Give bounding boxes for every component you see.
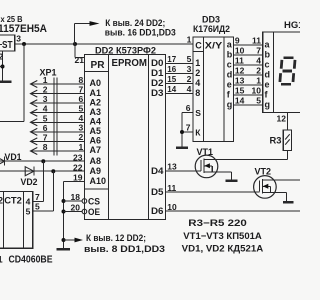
XP1 arrow 7 <box>31 138 38 145</box>
wire XP1 row 4 <box>31 112 85 114</box>
wire D3 to DD3 <box>166 93 193 95</box>
svg-text:VD1, VD2 КД521А: VD1, VD2 КД521А <box>182 244 264 255</box>
wire D2 to DD3 <box>166 83 193 85</box>
connector XP1 bar 2 <box>56 78 58 156</box>
ground bar rail <box>57 248 70 251</box>
node S-K junction <box>180 130 184 134</box>
counter DD1 box <box>0 192 33 249</box>
svg-text:1: 1 <box>43 75 48 85</box>
diode VD1 bar <box>4 157 6 166</box>
svg-text:CS: CS <box>88 197 100 207</box>
svg-text:ST: ST <box>2 40 13 51</box>
svg-text:S: S <box>195 108 201 118</box>
svg-text:1: 1 <box>0 255 3 266</box>
svg-text:b: b <box>227 50 233 60</box>
R3 slash 2 <box>285 139 290 144</box>
VT1 source stub <box>204 171 231 173</box>
wire XP1 row 2 <box>31 93 85 95</box>
svg-text:R3: R3 <box>270 135 282 145</box>
svg-text:a: a <box>265 40 271 50</box>
svg-text:1: 1 <box>256 76 261 86</box>
VT2 source stub <box>263 192 287 194</box>
wire up to supply arrow <box>74 24 76 45</box>
DD3 divider left col <box>202 37 204 142</box>
HG1 digit seg D <box>281 83 291 86</box>
HG1 divider <box>273 32 275 113</box>
regulator DA1 box <box>0 35 15 51</box>
wire A10 row <box>64 180 85 182</box>
R3 slash 1 <box>285 134 290 139</box>
wire segment e <box>233 84 262 86</box>
svg-text:14: 14 <box>235 96 245 106</box>
svg-text:13: 13 <box>235 76 245 86</box>
node A9 junction <box>51 169 55 173</box>
svg-text:4: 4 <box>43 104 48 114</box>
svg-text:11: 11 <box>235 56 244 66</box>
XP1 arrow 6 <box>31 128 38 135</box>
svg-text:D4: D4 <box>151 166 164 177</box>
DD3 divider right col <box>223 37 225 142</box>
svg-text:17: 17 <box>167 55 176 64</box>
svg-text:5: 5 <box>187 54 192 64</box>
XP1 arrow 2 <box>31 90 38 97</box>
svg-text:7: 7 <box>256 46 261 56</box>
svg-text:PR: PR <box>91 60 106 71</box>
ground bar VT1 <box>226 179 238 182</box>
wire S row <box>182 112 193 114</box>
wire XP1 row 5 <box>31 121 85 123</box>
wire segment b <box>233 54 262 56</box>
svg-text:OE: OE <box>88 207 100 217</box>
diode VD1 triangle <box>0 157 5 166</box>
wire R3 to VT1 drain <box>286 150 288 159</box>
svg-text:5: 5 <box>256 96 261 106</box>
svg-text:3: 3 <box>43 94 48 104</box>
svg-text:9: 9 <box>235 36 240 46</box>
svg-text:VT2: VT2 <box>255 166 272 176</box>
svg-text:11: 11 <box>252 36 261 46</box>
wire XP1 row 1 <box>31 83 85 85</box>
wire S-K down <box>181 113 183 148</box>
wire D6 to edge <box>166 210 301 212</box>
svg-text:15: 15 <box>235 86 245 96</box>
ground bar regulator <box>0 81 12 84</box>
node OE junction <box>62 210 66 214</box>
svg-text:8: 8 <box>78 75 83 85</box>
svg-text:D3: D3 <box>151 88 164 99</box>
svg-text:СТ2: СТ2 <box>4 195 22 206</box>
DD2 divider left col <box>108 55 110 220</box>
node junction at x75 <box>73 42 77 46</box>
XP1 arrow 5 <box>31 119 38 126</box>
DD1 divider right <box>22 192 24 249</box>
svg-text:d: d <box>265 70 271 80</box>
svg-text:10: 10 <box>252 86 262 96</box>
svg-text:d: d <box>227 70 233 80</box>
svg-text:f: f <box>265 90 269 100</box>
svg-text:c: c <box>227 60 232 70</box>
HG1 pin 12 wire <box>287 113 289 131</box>
svg-text:18: 18 <box>71 192 81 202</box>
svg-text:e: e <box>227 80 232 90</box>
wire A8 row <box>0 160 85 162</box>
svg-text:A7: A7 <box>90 145 102 156</box>
EPROM DD2 box <box>85 55 166 220</box>
XP1 arrow 3 <box>31 100 38 107</box>
svg-text:4: 4 <box>26 197 31 207</box>
ground bar VT2 <box>283 201 294 204</box>
svg-text:2: 2 <box>43 85 48 95</box>
VT1 source down <box>231 172 233 180</box>
svg-text:12: 12 <box>235 66 245 76</box>
svg-text:R3−R5 220: R3−R5 220 <box>188 218 247 229</box>
svg-text:10: 10 <box>235 46 245 56</box>
svg-text:4: 4 <box>78 113 83 123</box>
diode VD2 triangle <box>25 167 34 176</box>
wire OE row <box>64 211 83 213</box>
svg-text:16: 16 <box>167 65 176 74</box>
HG1 digit seg B <box>293 60 297 69</box>
svg-text:1: 1 <box>78 142 83 152</box>
svg-text:13: 13 <box>167 162 177 172</box>
VT1 gate bar <box>200 160 202 171</box>
wire to EPROM pin 21 <box>74 44 76 58</box>
svg-text:VD1: VD1 <box>5 152 22 162</box>
wire D0 to DD3 <box>166 63 193 65</box>
wire D5 to VT2 gate <box>166 191 260 193</box>
svg-text:HG1: HG1 <box>284 20 300 31</box>
svg-text:e: e <box>265 80 270 90</box>
bubble OE <box>82 209 87 214</box>
svg-text:CD4060BE: CD4060BE <box>9 255 53 266</box>
XP1 arrow 1 <box>31 81 38 88</box>
svg-text:6: 6 <box>43 123 48 133</box>
wire XP1 row 6 <box>31 131 85 133</box>
DD2 divider right col <box>148 55 150 220</box>
svg-text:7: 7 <box>78 84 83 94</box>
svg-text:EPROM: EPROM <box>112 58 148 69</box>
svg-text:4: 4 <box>256 56 261 66</box>
arrow to gnd text <box>75 238 84 243</box>
wire XP1 row 8 <box>31 150 85 152</box>
node A8 junction <box>41 159 45 163</box>
HG1 digit seg C <box>292 73 296 82</box>
svg-text:7: 7 <box>43 132 48 142</box>
svg-text:3: 3 <box>16 34 21 44</box>
svg-text:8: 8 <box>43 142 48 152</box>
svg-text:21: 21 <box>75 55 85 65</box>
wire gnd arrow <box>64 239 76 241</box>
svg-text:15: 15 <box>167 75 176 84</box>
XP1 arrow 8 <box>31 148 38 155</box>
DD2 PR underline <box>85 71 109 73</box>
svg-text:D5: D5 <box>151 187 164 198</box>
svg-text:3: 3 <box>187 64 192 74</box>
wire +5V branch down <box>23 44 25 121</box>
wire A8 to DD1 pin7 <box>42 161 44 201</box>
svg-text:2: 2 <box>78 132 83 142</box>
svg-text:К выв. 12 DD2;: К выв. 12 DD2; <box>86 233 146 244</box>
regulator internal dash <box>0 44 2 46</box>
node regulator gnd junction <box>1 65 5 69</box>
svg-text:5: 5 <box>26 207 31 217</box>
HG1 digit seg G <box>283 70 293 73</box>
indicator HG1 box <box>263 32 304 113</box>
wire XP1 row 3 <box>31 102 85 104</box>
node junction at x24 <box>22 42 26 46</box>
svg-text:2: 2 <box>187 74 192 84</box>
wire +5V rail <box>15 43 193 45</box>
wire segment a <box>233 44 262 46</box>
svg-text:D6: D6 <box>151 206 164 217</box>
bubble CS <box>82 199 87 204</box>
svg-text:4: 4 <box>195 78 200 88</box>
svg-text:f: f <box>227 90 231 100</box>
resistor R3 box <box>283 130 291 150</box>
svg-text:6: 6 <box>78 94 83 104</box>
svg-text:выв. 8 DD1,DD3: выв. 8 DD1,DD3 <box>84 244 165 255</box>
svg-text:6: 6 <box>186 103 191 113</box>
svg-text:c: c <box>265 60 270 70</box>
svg-text:a: a <box>227 40 233 50</box>
DD2 address divider <box>85 188 109 190</box>
wire CS-OE rail <box>63 181 65 248</box>
wire supply arrow horizontal <box>75 23 91 25</box>
svg-text:23: 23 <box>73 152 83 162</box>
HG1 digit seg F <box>280 60 283 69</box>
svg-text:1: 1 <box>187 35 192 45</box>
svg-text:2: 2 <box>256 66 261 76</box>
ground bar S-K <box>176 147 188 150</box>
svg-text:b: b <box>265 50 271 60</box>
connector XP1 bar 1 <box>53 78 55 156</box>
svg-text:К: К <box>195 128 201 138</box>
HG1 digit seg A <box>284 56 294 59</box>
wire K row <box>182 131 193 133</box>
svg-text:20: 20 <box>71 202 81 212</box>
svg-text:19: 19 <box>73 173 83 183</box>
XP1 arrow 4 <box>31 109 38 116</box>
VT2 drain stub <box>263 179 301 181</box>
svg-text:5: 5 <box>78 104 83 114</box>
wire XP1 row 7 <box>31 140 85 142</box>
svg-text:VD2: VD2 <box>21 177 38 187</box>
transistor VT2 circle <box>254 176 277 199</box>
wire A9 to DD1 pin5 <box>52 171 54 211</box>
svg-text:22: 22 <box>73 162 83 172</box>
transistor VT1 circle <box>195 155 218 178</box>
svg-text:2: 2 <box>0 52 4 62</box>
svg-text:14: 14 <box>167 85 176 94</box>
svg-text:1157ЕН5А: 1157ЕН5А <box>0 23 47 35</box>
HG1 digit seg E <box>278 73 282 82</box>
VT2 substrate arrow <box>263 185 271 187</box>
wire regulator gnd pin <box>2 51 4 81</box>
wire A9 row <box>0 170 85 172</box>
wire segment f <box>233 94 262 96</box>
wire D4 to VT1 gate <box>166 170 202 172</box>
svg-text:11: 11 <box>167 183 176 193</box>
VT2 channel bar <box>262 179 264 193</box>
wire CS row <box>64 200 83 202</box>
svg-text:2: 2 <box>195 68 200 78</box>
svg-text:3: 3 <box>78 123 83 133</box>
svg-text:К176ИД2: К176ИД2 <box>193 24 230 35</box>
svg-text:7: 7 <box>186 123 191 133</box>
svg-text:A10: A10 <box>90 176 107 187</box>
VT2 gate bar <box>258 180 260 191</box>
svg-text:C: C <box>195 40 202 50</box>
wire D1 to DD3 <box>166 73 193 75</box>
DD1 divider left <box>2 192 4 249</box>
svg-text:g: g <box>265 100 271 110</box>
svg-text:10: 10 <box>167 202 177 212</box>
VT1 channel bar <box>203 158 205 172</box>
svg-text:2: 2 <box>0 195 3 205</box>
svg-text:X/Y: X/Y <box>205 40 223 50</box>
svg-text:8: 8 <box>195 88 200 98</box>
DD3 C underline <box>193 51 204 53</box>
svg-text:12: 12 <box>277 113 287 123</box>
VT2 source down <box>286 193 288 202</box>
VT1 substrate arrow <box>204 165 212 167</box>
wire segment c <box>233 64 262 66</box>
wire stub left <box>0 66 3 68</box>
node CS junction <box>62 199 66 203</box>
decoder DD3 box <box>193 37 234 142</box>
svg-text:VT1−VT3 КП501А: VT1−VT3 КП501А <box>183 231 262 242</box>
svg-text:1: 1 <box>195 58 200 68</box>
wire branch left to edge <box>0 120 24 122</box>
svg-text:g: g <box>227 100 233 110</box>
svg-text:выв. 16 DD1,DD3: выв. 16 DD1,DD3 <box>105 28 176 39</box>
svg-text:4: 4 <box>187 84 192 94</box>
wire segment d <box>233 74 262 76</box>
wire segment g <box>233 104 262 106</box>
diode VD2 bar <box>33 167 35 176</box>
VT1 drain stub <box>204 158 218 160</box>
arrow to +5V text <box>90 21 100 26</box>
svg-text:5: 5 <box>43 113 48 123</box>
node gnd arrow junction <box>62 238 66 242</box>
svg-text:5: 5 <box>35 201 40 211</box>
